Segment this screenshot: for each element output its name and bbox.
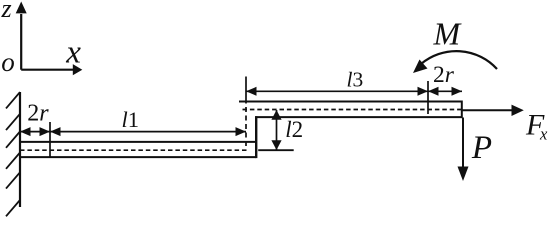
svg-text:2r: 2r [27,101,49,127]
beam segment 2 (upper rod) bottom edge [255,116,462,118]
beam segment 1 (lower rod) bottom edge [20,156,256,158]
dimension l3: left arrow [246,87,257,96]
x-axis [21,64,82,75]
svg-text:M: M [433,16,463,52]
force Fx: arrowhead [512,105,524,116]
svg-text:2r: 2r [433,62,455,88]
moment M arc [421,51,497,69]
wall hatching [6,92,20,216]
dimension 2r left: line [20,131,50,133]
extension line at step (dashed part) [245,107,247,147]
tick at x=50 (left 2r boundary) [49,122,51,158]
beam segment 1 centerline (dashed) [20,149,248,151]
dimension l1: left arrow [50,127,61,136]
dimension l3: right arrow [418,87,429,96]
force P: arrowhead [458,167,469,182]
beam segment 1 (lower rod) top edge [20,141,256,143]
dimension 2r right: left arrow [428,87,439,96]
beam segment 2 right end face [461,101,463,119]
z-axis [16,2,27,70]
dimension 2r left: left arrow [20,127,31,136]
dimension l3: line [246,90,428,92]
svg-text:o: o [1,47,15,77]
step face [255,116,257,158]
dimension 2r left: right arrow [40,127,51,136]
l2 bottom extension line [258,149,294,151]
dimension l2: line [276,110,278,150]
svg-text:P: P [471,130,492,166]
force P: line [462,118,464,168]
svg-text:x: x [65,35,81,71]
beam segment 2 centerline (dashed) [243,109,462,111]
dimension 2r right: line [428,90,462,92]
extension line at step (solid part) [245,77,247,104]
dimension 2r right: right arrow [452,87,463,96]
wall line [19,92,21,207]
dimension l1: right arrow [236,127,247,136]
svg-text:l1: l1 [122,107,140,132]
dimension l2: bottom arrow [271,140,281,150]
svg-text:x: x [539,125,548,144]
dimension l2: top arrow [271,110,281,120]
svg-text:l3: l3 [347,67,364,91]
svg-text:z: z [1,0,12,23]
moment M arrowhead [413,60,428,74]
dimension l1: line [50,131,246,133]
svg-text:l2: l2 [285,117,303,142]
force Fx: line [462,109,512,111]
beam segment 2 (upper rod) top edge [239,101,463,103]
tick at x=428 (right 2r boundary) [427,81,429,114]
